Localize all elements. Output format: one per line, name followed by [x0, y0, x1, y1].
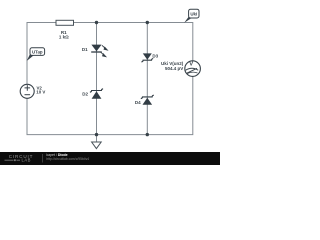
svg-text:LAB: LAB: [22, 158, 31, 163]
svg-text:http://circuitlab.com/c/95b4v4: http://circuitlab.com/c/95b4v4: [46, 157, 89, 161]
svg-text:UTap: UTap: [32, 49, 43, 54]
svg-text:D1: D1: [82, 47, 88, 52]
svg-text:V: V: [189, 62, 193, 68]
svg-text:1 kΩ: 1 kΩ: [59, 35, 69, 40]
svg-text:Uki V(un2): Uki V(un2): [161, 61, 184, 66]
svg-text:504.4 pV: 504.4 pV: [165, 66, 183, 71]
svg-text:D4: D4: [135, 100, 141, 105]
svg-text:D3: D3: [152, 54, 158, 59]
svg-text:D2: D2: [82, 92, 88, 97]
svg-text:10 V: 10 V: [36, 90, 45, 95]
svg-text:Uki: Uki: [190, 11, 197, 16]
